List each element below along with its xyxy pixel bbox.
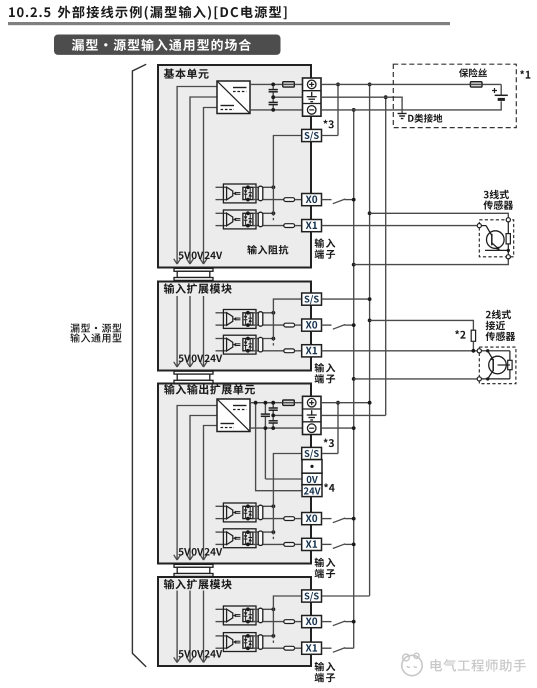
terminal X1 U2 xyxy=(302,345,322,357)
terminal block +/ground/- U3 xyxy=(303,396,322,434)
wire 0V bus U3 xyxy=(187,416,217,561)
wire 24V terminal to + rail U3 xyxy=(254,401,302,491)
5V 0V 24V labels U1 xyxy=(179,252,223,260)
wire 0V bus U2 xyxy=(187,296,194,367)
optocoupler U1-X1 xyxy=(216,210,302,229)
wire 24V bus U2 xyxy=(200,296,207,367)
junction U3 + wire to 24V bus xyxy=(321,401,372,405)
input expansion module box U4 xyxy=(158,577,311,666)
wire 5V bus U3 xyxy=(174,406,217,561)
label input impedance xyxy=(247,245,288,255)
terminal 24V U3 xyxy=(302,485,322,497)
battery B1 xyxy=(492,84,508,101)
terminal S/S U4 xyxy=(302,590,322,602)
wire S/S common U3 xyxy=(273,454,301,541)
base unit box U1 xyxy=(158,65,311,268)
label *4 xyxy=(324,483,335,492)
terminal block +/ground/- U1 xyxy=(303,78,322,116)
brace bracket for sink/source group xyxy=(132,64,146,667)
switch at U1 X0 xyxy=(322,198,356,204)
terminal blank-dot U3 xyxy=(302,460,322,474)
wire minus bus to sensor2 return xyxy=(352,377,477,381)
input expansion module label U2 xyxy=(164,283,232,294)
label fuse 保险丝 xyxy=(459,68,487,77)
wire U2 S/S to 24V bus xyxy=(322,297,372,301)
earth ground symbol D-class xyxy=(398,114,407,119)
fuse resistor on U3 + wire xyxy=(283,400,295,405)
wire U3 ground terminal to ground bus xyxy=(321,414,386,416)
switch at U3 X1 xyxy=(322,543,356,549)
filter branch U3 with capacitors C3 C4 xyxy=(269,401,278,430)
wire ground terminal to filter node U3 xyxy=(273,414,302,416)
terminal X0 U4 xyxy=(302,616,322,628)
wire 24V bus U3 xyxy=(200,426,217,561)
label input terminals U3 xyxy=(315,558,336,579)
wire minus bus to sensor1 0V xyxy=(352,259,508,267)
filter branch U1 with capacitors C1 C2 xyxy=(269,83,278,112)
power supply PS1 (U1) xyxy=(217,81,250,114)
wire PS2 plus output to + terminal xyxy=(250,402,303,404)
capacitor C5 branch to 0V terminal U3 xyxy=(261,401,302,479)
optocoupler U4-X0 xyxy=(216,606,302,625)
bus connector U2-U3 xyxy=(174,371,213,383)
label input terminals U2 xyxy=(315,363,336,384)
watermark text 电气工程师助手 xyxy=(431,659,526,672)
optocoupler U1-X0 xyxy=(216,184,302,203)
wire U3 - terminal to minus bus xyxy=(321,426,356,430)
5V 0V 24V labels U3 xyxy=(179,548,223,556)
5V 0V 24V labels U2 xyxy=(179,355,223,363)
label input terminals U4 xyxy=(315,662,336,683)
label input terminals U1 xyxy=(315,238,336,259)
sensor1 transistor and load xyxy=(477,218,510,259)
wire U4 S/S to 24V bus xyxy=(322,595,370,597)
5V 0V 24V labels U4 xyxy=(179,650,223,658)
wire 24V bus to bleeder resistor xyxy=(368,319,474,331)
wire 0V bus U1 xyxy=(187,97,217,264)
base unit label xyxy=(164,69,209,79)
sensor2 transistor and load xyxy=(477,349,512,381)
wire S/S to + link U3 (*3) xyxy=(322,401,340,454)
terminal S/S U2 xyxy=(302,293,322,305)
terminal S/S U1 xyxy=(302,129,322,141)
watermark logo xyxy=(402,653,422,676)
terminal X0 U2 xyxy=(302,319,322,331)
switch at U2 X0 xyxy=(322,323,356,329)
wire 5V bus U4 xyxy=(174,591,181,663)
wire 24V bus U4 xyxy=(200,591,207,663)
terminal 0V U3 xyxy=(302,473,322,485)
wire S/S common U2 xyxy=(273,299,301,347)
optocoupler U3-X1 xyxy=(216,529,302,548)
left label: sink/source input common type xyxy=(70,323,121,342)
input expansion module label U4 xyxy=(164,579,232,590)
wire U1 X1 to sensor1 output xyxy=(322,225,478,227)
terminal X1 U4 xyxy=(302,642,322,654)
wire plus 24V bus vertical xyxy=(368,83,372,596)
I/O expansion unit label U3 xyxy=(164,384,255,395)
label *3 U3 xyxy=(324,439,334,448)
wire S/S common U4 xyxy=(273,596,301,644)
bus connector U3-U4 xyxy=(174,564,213,576)
I/O expansion unit box U3 xyxy=(158,384,311,564)
optocoupler U2-X0 xyxy=(216,310,302,329)
power supply PS2 (U3) xyxy=(217,399,250,432)
switch at U4 X0 xyxy=(322,620,356,626)
label D类接地 xyxy=(408,114,442,123)
optocoupler U2-X1 xyxy=(216,335,302,354)
wire U1 + terminal to fuse F1 xyxy=(321,83,501,85)
fuse F1 xyxy=(470,82,482,87)
optocoupler U4-X1 xyxy=(216,633,302,652)
wire minus bus vertical xyxy=(352,108,356,648)
input expansion module box U2 xyxy=(158,282,311,371)
wire 5V bus U1 xyxy=(174,87,217,265)
wire 24V bus to sensor1 supply xyxy=(368,211,509,217)
sensor1 dashed box xyxy=(479,220,513,257)
label *2 xyxy=(455,330,466,339)
terminal S/S U3 xyxy=(302,447,322,459)
wire U1 ground terminal to earth xyxy=(321,97,402,113)
wire U1 - terminal to battery minus xyxy=(321,101,501,110)
bleeder resistor R2 (*2) xyxy=(471,330,475,351)
terminal X0 U1 xyxy=(302,194,322,206)
dashed box: external DC source xyxy=(393,64,516,127)
wire S/S common U1 xyxy=(273,136,301,222)
wire 0V bus U4 xyxy=(187,591,194,663)
label 2-wire proximity sensor xyxy=(486,310,516,341)
wire 5V bus U2 xyxy=(174,296,181,367)
wire PS1 plus output to + terminal xyxy=(250,83,303,85)
title heading 10.2.5 xyxy=(9,6,286,20)
wire 24V bus U1 xyxy=(200,108,217,265)
optocoupler U3-X0 xyxy=(216,503,302,522)
bus connector U1-U2 xyxy=(174,268,213,280)
wire PS2 minus output to - terminal xyxy=(250,427,303,429)
terminal X1 U3 xyxy=(302,538,322,550)
switch at U3 X0 xyxy=(322,517,356,523)
terminal X0 U3 xyxy=(302,513,322,525)
label *1 xyxy=(520,70,530,79)
label *3 U1 xyxy=(323,120,333,129)
wire S/S to + link U1 (*3) xyxy=(322,83,340,136)
terminal X1 U1 xyxy=(302,220,322,232)
fuse resistor on U1 + wire xyxy=(283,82,295,87)
title underline rule xyxy=(8,22,450,25)
wire ground bus vertical xyxy=(384,95,388,415)
banner box: sink/source common input case xyxy=(54,35,281,55)
sensor2 dashed box xyxy=(479,347,516,384)
wire PS1 minus output to - terminal xyxy=(250,109,303,111)
wire ground terminal to filter node U1 xyxy=(273,96,302,98)
wire U2 X1 to sensor2 xyxy=(322,349,478,353)
switch at U4 X1 xyxy=(322,648,354,653)
label 3-wire sensor xyxy=(483,190,513,210)
